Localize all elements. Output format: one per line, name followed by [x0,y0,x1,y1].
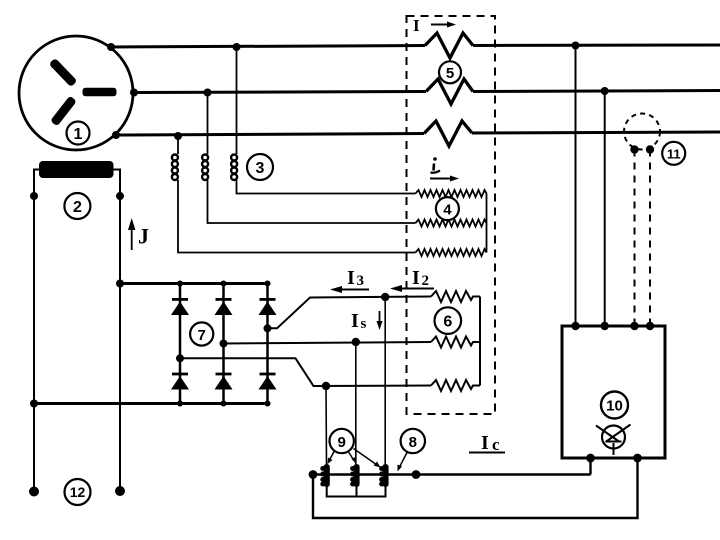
bridge column 2 [222,284,225,404]
node top bus left [116,280,124,288]
svg-text:I: I [481,432,489,454]
svg-text:1: 1 [74,126,83,143]
node on left lead [30,192,38,200]
node col1 bottom joint [177,401,183,407]
node on circle line2 [130,89,138,97]
diode D6 lower col3 [259,374,277,390]
wire bridge out top (col3) [268,297,432,329]
node 11 left terminal [630,145,638,153]
CT coil 3a [172,136,416,253]
wire resistor4 right bar [486,194,488,253]
resistor 6c zigzag [431,380,480,391]
rectifier bridge 7 top bus [120,282,268,285]
dashed wire 11 right [649,150,651,327]
wire bar right lead [114,170,121,284]
CT winding 9b [350,464,360,487]
generator rotor blade down-left [50,96,77,127]
diode D5 lower col2 [215,374,233,390]
CT winding 8 [379,464,389,487]
arrow Is down [379,311,381,325]
node col3 bottom joint [265,401,271,407]
node Ic mid [412,470,421,479]
svg-text:11: 11 [667,146,681,161]
generator rotor blade up-left [49,58,78,87]
resistor 5b zigzag in line2 [426,79,473,104]
arrow I2 left [397,288,434,290]
wire bridge out mid (col2) [224,342,432,344]
wire left vertical to terminal [33,404,35,492]
label 5 [439,61,461,83]
wire line2 right [473,91,720,92]
label 6 [435,307,462,334]
node on circle line3 [112,131,120,139]
bridge column 3 [266,284,269,404]
svg-text:6: 6 [443,314,452,331]
wire right vertical to terminal [119,284,121,492]
svg-text:9: 9 [338,434,346,451]
label 9 [330,429,354,453]
wire bridge out bottom (col1) [180,358,431,386]
dashed measurement box [407,16,496,414]
resistor 6b zigzag [431,337,480,348]
node on circle line1 [107,43,115,51]
terminal dot left [29,487,39,497]
node box bottom right [633,454,642,463]
svg-text:I: I [412,267,420,289]
node col1 top joint [177,281,183,287]
wire Ic line [313,473,591,475]
node I2/I3 junction [381,293,389,301]
node box top 1 [571,322,579,330]
arrow I right [431,24,452,26]
node col2 bottom joint [221,401,227,407]
label 10 [601,392,628,419]
rectifier bottom bus [34,402,268,405]
diode D3 upper col3 [259,299,277,315]
label 7 [190,322,213,345]
arrow i right [430,178,454,180]
node 11 right terminal [646,145,654,153]
svg-text:4: 4 [443,201,452,218]
node col3 output [264,324,272,332]
node col2 output [220,340,228,348]
arrow from 9 to coil 8 [354,449,378,466]
resistor 6a zigzag [431,291,480,302]
node bottom bus left [30,400,38,408]
svg-text:3: 3 [256,160,265,177]
node box top 4 [646,322,654,330]
node box top 3 [630,322,638,330]
resistor 4a fine zigzag [416,190,487,197]
node col1 output [176,354,184,362]
wire drop line1 to box [575,46,577,327]
arrow from 9 to coil 9a [329,452,334,462]
node on line1 x575 [572,42,580,50]
wire Ic to box bottom-left [589,458,591,475]
CT coil 3b [202,93,415,224]
svg-text:I: I [413,16,420,35]
node box top 2 [601,322,609,330]
node box bottom left [586,454,595,463]
node on line2 x604 [601,87,609,95]
svg-text:s: s [361,316,367,332]
resistor 5c zigzag in line3 [424,121,472,146]
node bottom-line junction [322,382,330,390]
svg-text:10: 10 [606,398,623,415]
label 12 [65,479,91,505]
label 2 [64,193,90,219]
svg-text:3: 3 [357,273,365,289]
node on line3 x178 [174,132,182,140]
sensor symbol in box [596,425,631,456]
svg-text:I: I [347,267,355,289]
svg-text:c: c [492,435,500,454]
wire phase line 2 [134,92,426,93]
wire bottom return [313,458,638,518]
wire resistor6 right bar [479,297,481,386]
label 4 [436,197,459,220]
resistor 5a zigzag in line1 [425,33,473,58]
CT coil 3c [231,47,415,194]
generator rotor blade right [83,88,117,96]
svg-text:8: 8 [409,434,417,451]
arrow I3 left [338,289,369,291]
node on line2 x207 [204,89,212,97]
generator G1 circle [19,36,133,150]
svg-text:12: 12 [70,484,86,500]
resistor 4b fine zigzag [416,220,487,227]
CT winding 9a [320,464,330,487]
wire line3 right [472,132,720,133]
resistor 4c fine zigzag [416,249,487,256]
wire bar left lead [34,170,39,404]
svg-text:J: J [138,224,149,249]
wire CT bottoms bar [327,487,386,497]
wire drop x326 to coil9a [325,386,328,464]
wire phase line 3 [116,134,424,136]
label 11 [662,142,685,165]
diode D2 upper col2 [215,299,233,315]
wire drop x385 to coil8 [384,297,386,464]
sensor 11 dashed circle [624,114,660,150]
regulator box 10 [562,326,665,458]
arrow from 9 to coil 9b [349,452,355,461]
underline Ic [469,452,505,454]
label 3 [247,154,273,180]
arrow from 8 to wire [399,453,407,469]
node Ic left [309,470,318,479]
node Is junction [352,338,360,346]
label 8 [401,429,425,453]
node on line1 x236 [233,43,241,51]
node col3 top joint [265,281,271,287]
label i [431,157,441,173]
node on right lead [116,192,124,200]
wire drop line2 to box [604,91,606,326]
node col2 top joint [221,281,227,287]
diode D4 lower col1 [171,374,189,390]
svg-text:7: 7 [198,327,206,344]
bridge column 1 [179,284,182,404]
diode D1 upper col1 [171,299,189,315]
wire phase line 1 [111,46,425,48]
svg-text:I: I [351,310,359,332]
svg-text:5: 5 [446,65,454,82]
exciter field 2 black bar [39,161,114,178]
wire drop x355 to coil9b [355,342,357,464]
svg-text:2: 2 [73,199,82,216]
svg-text:2: 2 [422,273,430,289]
dashed wire 11 left [634,150,636,327]
arrow J up [131,228,133,250]
terminal dot right [115,486,125,496]
label 1 [67,122,90,145]
wire line1 right [473,44,720,48]
